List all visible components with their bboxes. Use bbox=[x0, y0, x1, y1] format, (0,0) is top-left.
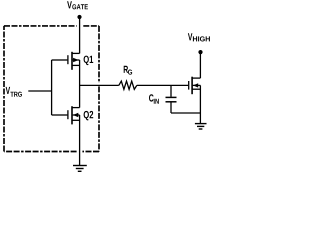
wire RG to gate of power FET bbox=[137, 84, 188, 86]
label Q1 bbox=[84, 56, 94, 65]
wire power FET source to ground bbox=[199, 85, 201, 123]
wire output to RG bbox=[80, 84, 119, 86]
wire VGATE to Q1 drain bbox=[79, 17, 81, 53]
node VGATE dot bbox=[77, 15, 81, 19]
resistor RG bbox=[119, 81, 137, 89]
transistor power FET bbox=[189, 77, 201, 95]
label Q2 bbox=[84, 111, 94, 121]
capacitor CIN bbox=[166, 85, 177, 113]
wire VTRG input bbox=[28, 90, 51, 92]
transistor Q1 bbox=[68, 52, 80, 70]
wire VHIGH to power FET drain bbox=[199, 52, 201, 78]
wire Q1 source to Q2 drain (output node) bbox=[79, 60, 81, 108]
label CIN bbox=[149, 94, 159, 103]
wire Q2 gate bbox=[52, 114, 68, 116]
wire CIN to source bbox=[171, 112, 200, 114]
label RG bbox=[124, 66, 132, 75]
wire gate bus bbox=[51, 60, 53, 115]
ground (power) bbox=[195, 124, 207, 129]
node VHIGH dot bbox=[198, 50, 202, 54]
label VHIGH bbox=[188, 33, 210, 41]
label VTRG bbox=[6, 87, 22, 97]
wire Q1 gate bbox=[52, 59, 68, 61]
transistor Q2 bbox=[68, 106, 80, 124]
label VGATE bbox=[67, 1, 88, 9]
wire Q2 source to ground bbox=[79, 115, 81, 165]
driver block dashed box bbox=[4, 26, 99, 152]
ground (driver) bbox=[73, 166, 87, 172]
